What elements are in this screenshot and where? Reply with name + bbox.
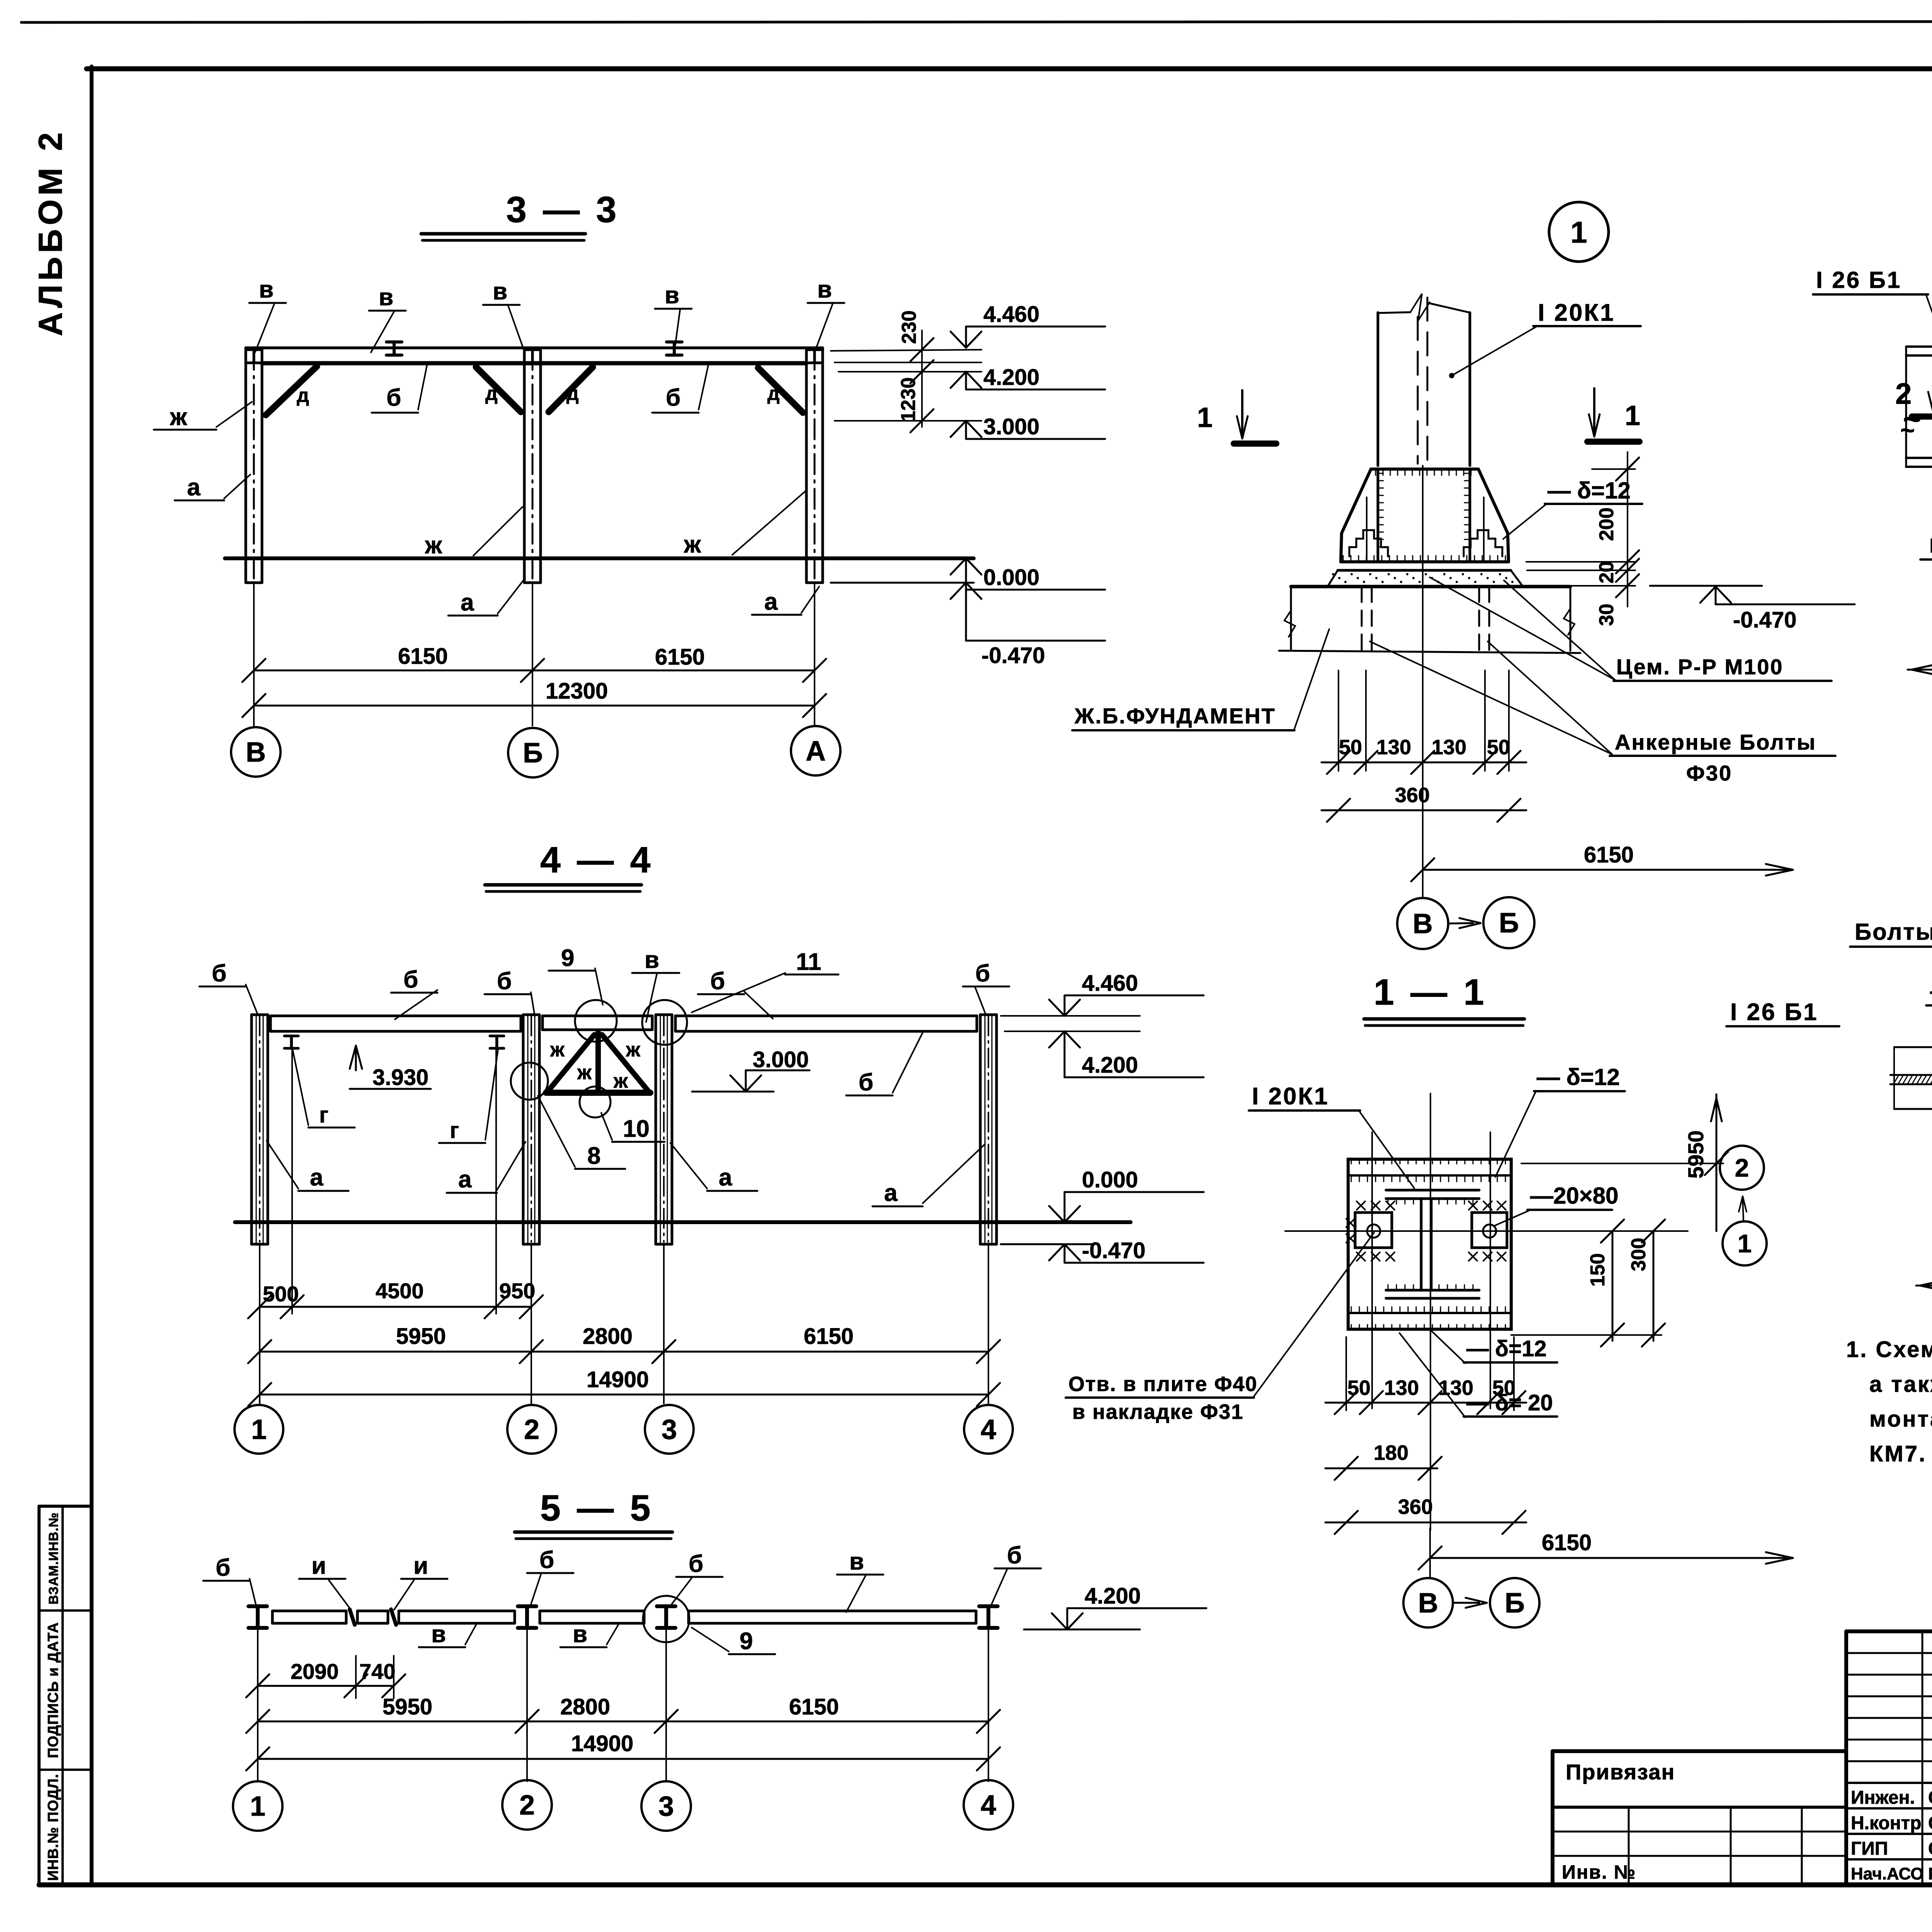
svg-text:б: б [1007, 1542, 1022, 1569]
svg-text:1: 1 [1570, 215, 1587, 249]
svg-text:I 20К1: I 20К1 [1538, 299, 1615, 326]
detail circle 9 [575, 1000, 617, 1042]
svg-text:а: а [187, 474, 201, 501]
axis lines 1-1 [1285, 1230, 1688, 1232]
foundation node 1 [1291, 585, 1570, 588]
svg-text:I 26 Б1: I 26 Б1 [1816, 267, 1901, 293]
column dashed web lines node 1 [1417, 317, 1419, 464]
svg-text:д: д [485, 383, 498, 404]
beam 5-5 segments [272, 1610, 346, 1612]
beam 3-3 top chord inner line [246, 348, 823, 349]
svg-text:1: 1 [251, 1414, 267, 1445]
svg-text:50: 50 [1347, 1376, 1371, 1400]
svg-text:ж: ж [684, 531, 701, 558]
elevation 4.200 4-4 [1064, 1031, 1066, 1077]
svg-text:в: в [573, 1621, 587, 1648]
svg-text:Инжен.: Инжен. [1851, 1787, 1915, 1808]
beam flange hatched strip 2-2 [1890, 1074, 1932, 1076]
ground line 3-3 [225, 556, 974, 560]
beam outline 2-2 [1894, 1046, 1932, 1048]
svg-text:в: в [259, 276, 274, 303]
svg-text:Ротенштейн: Ротенштейн [1928, 1864, 1932, 1883]
title block outer borders [1551, 1751, 1554, 1885]
splice marks и 5-5 [350, 1609, 355, 1625]
svg-text:14900: 14900 [571, 1731, 633, 1756]
svg-text:б: б [859, 1069, 873, 1096]
column 4-4 #1 [250, 1015, 253, 1244]
column 3-3 #1 [245, 348, 247, 583]
elevation refs right of 3-3 [831, 350, 981, 351]
svg-text:180: 180 [1374, 1441, 1408, 1464]
svg-text:5950: 5950 [396, 1324, 446, 1349]
svg-text:3 — 3: 3 — 3 [506, 189, 619, 230]
washer plate right 1-1 [1472, 1213, 1507, 1248]
svg-text:ГИП: ГИП [1851, 1838, 1888, 1859]
brace 3-3 bay1 right [476, 367, 521, 412]
frame bottom border [39, 1883, 1932, 1888]
I symbols 5-5 [248, 1604, 267, 1608]
detail circle 10 [580, 1087, 611, 1117]
dim 5950 1-1 [1521, 1163, 1723, 1164]
left stamp outer box [39, 1505, 92, 1508]
elevation 0.000 [965, 558, 967, 590]
svg-text:300: 300 [1628, 1238, 1650, 1271]
svg-text:1: 1 [1197, 402, 1213, 433]
grid bubble 2 4-4 [507, 1405, 556, 1454]
svg-text:4.200: 4.200 [1082, 1053, 1138, 1078]
svg-text:5950: 5950 [1684, 1130, 1708, 1179]
svg-text:б: б [403, 966, 418, 993]
svg-text:130: 130 [1376, 736, 1411, 759]
elevation 4.460 4-4 [1064, 995, 1066, 1016]
svg-text:б: б [689, 1551, 703, 1577]
svg-text:в: в [493, 278, 507, 305]
svg-text:д: д [297, 384, 309, 406]
svg-text:в: в [817, 276, 832, 303]
svg-text:200: 200 [1595, 507, 1618, 541]
axes 4-4 verticals [259, 1244, 260, 1403]
svg-text:а: а [310, 1164, 323, 1191]
svg-text:а: а [719, 1164, 732, 1191]
svg-text:Инв. №: Инв. № [1562, 1861, 1636, 1883]
svg-text:в: в [645, 947, 659, 973]
svg-text:0.000: 0.000 [1082, 1167, 1138, 1192]
mid-span I symbol bay2 [667, 340, 682, 344]
svg-text:ж: ж [613, 1070, 628, 1092]
central signature table columns [1922, 1631, 1923, 1885]
svg-text:11: 11 [796, 949, 821, 975]
svg-text:ж: ж [170, 404, 187, 430]
svg-text:2: 2 [524, 1414, 539, 1445]
svg-text:В: В [1418, 1588, 1438, 1619]
svg-text:360: 360 [1398, 1495, 1433, 1519]
svg-text:4.460: 4.460 [983, 302, 1039, 327]
svg-text:АЛЬБОМ 2: АЛЬБОМ 2 [32, 129, 69, 336]
dim line 12300 3-3 [254, 705, 815, 707]
svg-text:3: 3 [658, 1791, 674, 1822]
brace 3-3 bay1 left [266, 366, 317, 415]
column 3-3 #3 [805, 348, 808, 583]
column shaft node 1 [1377, 313, 1379, 466]
grid bubble 4 5-5 [964, 1780, 1013, 1830]
svg-text:ПОДПИСЬ и ДАТА: ПОДПИСЬ и ДАТА [45, 1622, 61, 1758]
svg-text:б: б [710, 968, 725, 995]
hatch ticks column sides [1378, 473, 1383, 474]
svg-text:8: 8 [587, 1143, 600, 1169]
ground line 4-4 [235, 1220, 1131, 1224]
svg-text:и: и [413, 1553, 428, 1579]
svg-text:б: б [975, 960, 990, 987]
svg-text:2800: 2800 [560, 1694, 610, 1719]
svg-text:а: а [461, 589, 474, 616]
svg-text:ИНВ.№ ПОДЛ.: ИНВ.№ ПОДЛ. [45, 1774, 61, 1881]
svg-text:д: д [566, 383, 579, 404]
column top break line node 1 [1378, 312, 1410, 313]
svg-text:г: г [319, 1102, 328, 1128]
detail circle on axis3 5-5 [643, 1596, 689, 1642]
section mark 1 right [1593, 388, 1595, 433]
grid bubbles В Б node 1 [1397, 898, 1448, 949]
svg-text:2: 2 [1895, 378, 1912, 410]
column 4-4 #3 centerline [663, 1016, 665, 1242]
left attachment box columns [1628, 1807, 1630, 1885]
svg-text:150: 150 [1587, 1253, 1609, 1287]
beam 3-3 [246, 347, 823, 349]
svg-text:3: 3 [662, 1414, 677, 1445]
truss 4-4 vertical [595, 1032, 601, 1093]
svg-text:2090: 2090 [291, 1659, 339, 1684]
elevation 0.000 4-4 [1064, 1192, 1066, 1222]
svg-text:ж: ж [577, 1061, 592, 1084]
column 3-3 #1 top I-symbol [247, 349, 261, 351]
svg-text:2: 2 [519, 1790, 535, 1821]
svg-text:и: и [311, 1553, 326, 1579]
hatch ticks around I-section [1388, 1199, 1389, 1204]
svg-text:4.460: 4.460 [1082, 971, 1138, 996]
svg-text:— δ=12: — δ=12 [1466, 1336, 1547, 1361]
strip plate lines 1-1 [1348, 1174, 1511, 1177]
dim line 5950 2800 6150 4-4 [260, 1351, 988, 1353]
svg-text:в: в [665, 282, 679, 309]
weld x marks 1-1 [1357, 1201, 1365, 1210]
svg-text:20: 20 [1595, 561, 1618, 583]
mid-span I symbol bay1 [386, 340, 402, 344]
column 4-4 #3 [655, 1015, 657, 1244]
svg-text:б: б [212, 960, 226, 987]
svg-text:12300: 12300 [546, 679, 608, 704]
grid bubble 3 4-4 [645, 1405, 694, 1454]
svg-text:Привязан: Привязан [1566, 1760, 1675, 1784]
truss 4-4 diagonal left [548, 1035, 594, 1091]
column 4-4 #2 inner lines [527, 1015, 529, 1244]
svg-text:230: 230 [898, 310, 920, 344]
detail circle 8 on column 2 [511, 1063, 548, 1100]
svg-text:г: г [450, 1118, 459, 1143]
svg-text:а: а [458, 1166, 472, 1193]
elevation -0.470 4-4 [1001, 1243, 1094, 1245]
svg-text:б: б [216, 1554, 230, 1581]
grid bubble Б 3-3 [508, 728, 558, 777]
svg-text:В: В [246, 737, 266, 768]
dim 6150 1-1 [1430, 1557, 1793, 1559]
svg-text:в: в [379, 284, 393, 311]
grid bubble 2 5-5 [502, 1780, 552, 1830]
column flange lines inside trapezoid [1377, 469, 1379, 560]
column 3-3 #2 top I-symbol [526, 349, 539, 351]
svg-text:Б: Б [1505, 1588, 1525, 1619]
svg-text:∟75×6: ∟75×6 [1926, 532, 1932, 558]
svg-text:б: б [539, 1547, 554, 1573]
column I-section 1-1 [1386, 1189, 1479, 1192]
svg-text:1: 1 [250, 1791, 265, 1822]
column 4-4 #4 inner lines [985, 1015, 986, 1244]
dim line 2090 740 [258, 1685, 394, 1687]
grid bubble 2 1-1 [1720, 1146, 1764, 1190]
svg-text:130: 130 [1432, 736, 1466, 759]
grid bubble 1 4-4 [235, 1405, 283, 1454]
svg-text:4.200: 4.200 [983, 365, 1039, 390]
axes 5-5 verticals [257, 1625, 259, 1781]
svg-text:130: 130 [1384, 1376, 1419, 1400]
column 4-4 #4 [979, 1015, 982, 1244]
svg-text:740: 740 [359, 1659, 395, 1684]
svg-text:а: а [764, 588, 778, 615]
dim line 14900 5-5 [258, 1758, 988, 1760]
svg-text:в: в [431, 1621, 446, 1648]
svg-text:ж: ж [425, 532, 442, 559]
frame left border [90, 66, 94, 1885]
svg-text:I 26 Б1: I 26 Б1 [1730, 999, 1818, 1026]
svg-text:1: 1 [1738, 1229, 1752, 1258]
column 4-4 #3 inner lines [660, 1015, 661, 1244]
dim line 6150+6150 3-3 [254, 670, 815, 672]
base plate node 1 [1341, 560, 1509, 563]
hatch ticks base plate [1343, 556, 1344, 561]
elevation 3.000 [965, 421, 967, 439]
svg-text:Цем. Р-Р М100: Цем. Р-Р М100 [1616, 655, 1784, 679]
brace 3-3 bay2 right [758, 368, 803, 413]
base plate square 1-1 [1348, 1159, 1511, 1329]
svg-text:1: 1 [1625, 400, 1640, 431]
svg-text:— δ=12: — δ=12 [1548, 478, 1631, 503]
svg-text:2: 2 [1735, 1153, 1749, 1182]
dim 200 20 node 1 right [1592, 468, 1635, 470]
svg-text:1230: 1230 [897, 377, 920, 422]
svg-text:3.000: 3.000 [753, 1047, 809, 1072]
svg-text:Отв. в плите Ф40: Отв. в плите Ф40 [1068, 1372, 1258, 1396]
svg-text:Семенов: Семенов [1928, 1787, 1932, 1808]
svg-text:6150: 6150 [655, 645, 705, 670]
column 3-3 #3 top I-symbol [808, 349, 821, 351]
svg-text:30: 30 [1595, 604, 1618, 626]
svg-text:В: В [1413, 908, 1433, 939]
svg-text:ж: ж [550, 1039, 565, 1061]
dim line 14900 4-4 [260, 1394, 988, 1396]
axes 3-3 verticals [253, 583, 255, 726]
elevation -0.470 [965, 583, 967, 641]
svg-text:б: б [386, 384, 401, 411]
column 3-3 #2 [523, 348, 526, 583]
column 3-3 #3 centerline [814, 350, 816, 580]
brace 3-3 bay2 left [549, 367, 593, 412]
column 3-3 #2 centerline [532, 350, 534, 580]
svg-text:9: 9 [740, 1628, 753, 1655]
dim 6150 6150 2-2 [1916, 1285, 1932, 1287]
elevation 3.930 mark [355, 1046, 357, 1070]
svg-text:4 — 4: 4 — 4 [540, 840, 653, 881]
svg-text:Б: Б [1499, 908, 1519, 939]
svg-text:6150: 6150 [804, 1324, 854, 1349]
dim 360 1-1 [1325, 1522, 1526, 1524]
beams 4-4 [270, 1015, 521, 1017]
I symbols under beam 4-4 [284, 1035, 298, 1037]
column 4-4 #1 centerline [259, 1016, 260, 1242]
svg-text:— δ=6: — δ=6 [1930, 978, 1932, 1004]
svg-text:-0.470: -0.470 [1733, 607, 1796, 633]
svg-text:Анкерные Болты: Анкерные Болты [1615, 730, 1816, 754]
svg-text:в: в [849, 1548, 864, 1575]
elevation 4.200 5-5 [1024, 1629, 1140, 1631]
svg-text:-0.470: -0.470 [981, 643, 1045, 668]
dim line 500 4500 950 [260, 1306, 531, 1308]
dims 50 130 130 50 node 1 [1338, 670, 1339, 771]
svg-text:130: 130 [1439, 1376, 1473, 1400]
dim 6150 node 1 [1423, 869, 1793, 871]
mortar layer node 1 [1328, 570, 1522, 586]
left attachment box rows [1553, 1806, 1846, 1809]
svg-text:Нач.АСО: Нач.АСО [1851, 1864, 1924, 1883]
svg-text:д: д [767, 383, 780, 404]
svg-text:1 — 1: 1 — 1 [1374, 972, 1487, 1013]
svg-text:500: 500 [263, 1282, 299, 1306]
svg-text:монтажных узлов „1”;„2” смо: монтажных узлов „1”;„2” смотрите на лист… [1869, 1406, 1932, 1432]
svg-text:в накладке Ф31: в накладке Ф31 [1072, 1400, 1243, 1423]
svg-text:а: а [884, 1180, 898, 1206]
column 4-4 #4 centerline [988, 1016, 989, 1242]
svg-text:0.000: 0.000 [983, 565, 1039, 590]
anchor bolts in foundation [1361, 587, 1363, 651]
svg-text:КМ7.: КМ7. [1869, 1441, 1927, 1466]
elevation 3.000 mark 4-4 [745, 1070, 747, 1092]
svg-text:Б: Б [523, 738, 543, 769]
node 1 circle [1549, 202, 1609, 262]
svg-text:4500: 4500 [376, 1279, 424, 1303]
dims 50 130 130 50 1-1 [1325, 1402, 1526, 1404]
svg-text:9: 9 [561, 945, 574, 971]
svg-text:3.930: 3.930 [372, 1065, 429, 1090]
frame top border [87, 66, 1932, 71]
central signature table rows [1846, 1652, 1932, 1654]
svg-text:1. Схему расположения элемен: 1. Схему расположения элементов каркаса, [1846, 1337, 1932, 1362]
left stamp dividers [39, 1609, 92, 1612]
svg-text:14900: 14900 [587, 1367, 649, 1392]
column 3-3 #1 centerline [253, 350, 255, 580]
svg-text:а также маркировку разрезов: а также маркировку разрезов (3-3 ... 5-5… [1869, 1372, 1932, 1397]
svg-text:950: 950 [499, 1279, 535, 1303]
svg-text:—20×80: —20×80 [1530, 1183, 1619, 1209]
svg-text:5950: 5950 [383, 1694, 432, 1719]
svg-text:50: 50 [1339, 736, 1362, 759]
svg-text:6150: 6150 [398, 644, 448, 669]
svg-text:ж: ж [626, 1039, 641, 1061]
elevation 4.200 [965, 372, 967, 389]
svg-text:~: ~ [1900, 416, 1915, 444]
dim 180 1-1 [1325, 1468, 1437, 1469]
svg-text:5 — 5: 5 — 5 [540, 1488, 653, 1529]
svg-text:3.000: 3.000 [983, 414, 1039, 439]
grid bubbles В Б 1-1 [1403, 1578, 1453, 1628]
elevation -0.470 node 1 [1650, 585, 1762, 587]
washer plate left 1-1 [1355, 1213, 1392, 1248]
left beam node 2 [1906, 345, 1932, 348]
svg-text:360: 360 [1395, 784, 1430, 807]
elevation refs 4-4 right [1001, 1015, 1140, 1017]
base trapezoid node 1 [1341, 469, 1371, 562]
hatch ticks strip plates [1351, 1175, 1352, 1182]
truss 4-4 diagonal right [602, 1035, 648, 1091]
grid bubble 1 5-5 [233, 1781, 282, 1831]
sheet top edge line [21, 21, 1932, 22]
svg-text:Ж.Б.ФУНДАМЕНТ: Ж.Б.ФУНДАМЕНТ [1074, 704, 1276, 728]
svg-text:Ф30: Ф30 [1686, 761, 1732, 785]
column 4-4 #2 [522, 1015, 525, 1244]
foundation break marks [1284, 611, 1295, 637]
grid bubble А 3-3 [791, 726, 840, 776]
truss 4-4 bottom chord [546, 1090, 650, 1096]
svg-text:ВЗАМ.ИНВ.№: ВЗАМ.ИНВ.№ [46, 1512, 61, 1605]
svg-text:I 20К1: I 20К1 [1252, 1083, 1329, 1110]
svg-text:4: 4 [981, 1414, 996, 1445]
grid bubble 3 5-5 [641, 1781, 691, 1831]
svg-text:б: б [666, 384, 680, 411]
dims 150 300 1-1 [1511, 1334, 1662, 1336]
column 4-4 #2 centerline [531, 1016, 532, 1242]
dim extension 500/4500/950 [291, 1036, 293, 1314]
dim line 5950 2800 6150 5-5 [258, 1721, 988, 1723]
svg-text:— δ=12: — δ=12 [1537, 1064, 1620, 1090]
svg-text:6150: 6150 [1542, 1530, 1592, 1555]
dim 360 node 1 [1321, 810, 1526, 811]
dim 6150 6150 node 2 [1908, 669, 1932, 671]
svg-text:4.200: 4.200 [1085, 1583, 1141, 1609]
elevation 4.460 [965, 327, 967, 348]
grid bubble 1 1-1 [1723, 1221, 1767, 1265]
detail circle 11 on column 3 [642, 1000, 687, 1045]
anchor step plates node 1 [1349, 530, 1388, 556]
svg-text:6150: 6150 [789, 1694, 839, 1719]
svg-text:Сорокин: Сорокин [1928, 1838, 1932, 1859]
column 4-4 #1 inner lines [256, 1015, 257, 1244]
svg-text:50: 50 [1492, 1376, 1515, 1400]
svg-text:Н.контр: Н.контр [1851, 1813, 1922, 1833]
svg-text:б: б [497, 968, 512, 995]
svg-text:10: 10 [623, 1116, 650, 1142]
grid bubble В 3-3 [231, 727, 281, 777]
svg-text:Болты М16: Болты М16 [1855, 919, 1932, 945]
grid bubble 4 4-4 [964, 1405, 1013, 1454]
svg-text:50: 50 [1487, 736, 1510, 759]
hatch ticks on trapezoid top [1375, 469, 1376, 475]
svg-text:4: 4 [981, 1790, 996, 1821]
svg-text:6150: 6150 [1584, 842, 1634, 867]
column axis node 1 [1422, 466, 1423, 897]
svg-text:Сорокин: Сорокин [1928, 1813, 1932, 1833]
anchor bolts vertical node 1 [1366, 497, 1367, 561]
svg-text:А: А [806, 736, 826, 767]
svg-text:2800: 2800 [583, 1324, 633, 1349]
svg-text:-0.470: -0.470 [1082, 1238, 1145, 1263]
